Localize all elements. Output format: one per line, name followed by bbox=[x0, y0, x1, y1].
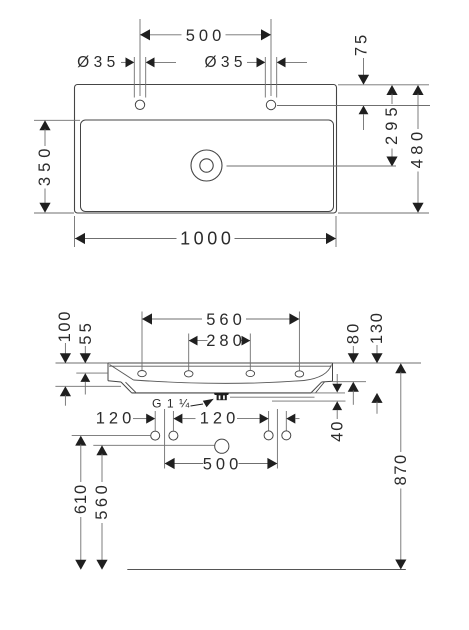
mounting hole leader line bbox=[72, 435, 151, 437]
dim 560 label bbox=[202, 312, 246, 329]
mounting hole line 4 bbox=[285, 411, 287, 431]
dim 1000 extension left bbox=[74, 216, 76, 247]
tap hole right center line bbox=[270, 19, 272, 96]
dim 500 line (tap hole spacing) bbox=[140, 34, 271, 36]
dim 480 arrow up bbox=[412, 85, 423, 95]
front view interior right curve bbox=[304, 365, 332, 381]
svg-text:280: 280 bbox=[206, 332, 246, 350]
dim 120 left arrow a bbox=[146, 414, 155, 424]
deck tap hole 4 bbox=[295, 371, 304, 377]
tap hole right circle bbox=[266, 100, 275, 109]
lower datum line bbox=[272, 400, 346, 402]
dim 120 left leader bbox=[133, 418, 147, 420]
dim 500 label bbox=[182, 28, 226, 44]
drain outer circle bbox=[191, 150, 222, 181]
svg-text:480: 480 bbox=[409, 127, 427, 168]
svg-text:Ø35: Ø35 bbox=[204, 54, 247, 71]
dim 100 arrow down bbox=[60, 353, 71, 363]
dim 280 arrow right bbox=[242, 336, 251, 346]
washbasin top view inner basin outline bbox=[81, 120, 334, 212]
dim 350 arrow up bbox=[39, 120, 50, 130]
dim 100 line upper bbox=[64, 343, 66, 355]
dim Ø35 right arrow a bbox=[257, 57, 266, 67]
dim 80 arrow up bbox=[348, 382, 359, 392]
dim 80 line lower bbox=[352, 390, 354, 405]
front view skirt left slant inner bbox=[126, 382, 136, 392]
front view underside right bbox=[322, 380, 333, 383]
dim 480 line lower bbox=[417, 172, 419, 205]
front view skirt right slant inner bbox=[316, 382, 325, 393]
mounting hole circle 1 bbox=[151, 431, 160, 440]
mounting hole circle 4 bbox=[282, 431, 291, 440]
tap hole left tangent lines bbox=[133, 57, 135, 98]
dim 280 arrow left bbox=[189, 336, 198, 346]
dim 1000 arrow left bbox=[75, 233, 85, 244]
drain center leader line bbox=[227, 165, 397, 167]
mounting hole line 2 bbox=[172, 411, 174, 431]
svg-text:610: 610 bbox=[72, 484, 90, 514]
dim 75 counter arrow up to hole axis bbox=[359, 106, 369, 115]
svg-text:560: 560 bbox=[93, 482, 111, 520]
svg-text:130: 130 bbox=[368, 311, 386, 344]
front view skirt bottom bbox=[132, 392, 312, 394]
washbasin top view outer outline bbox=[75, 85, 337, 214]
dim 560 extension left bbox=[141, 312, 143, 371]
dim 1000 label bbox=[177, 230, 235, 248]
dim 120 right tail bbox=[295, 418, 300, 420]
dim 40 line upper bbox=[336, 374, 338, 384]
dim 1000 line bbox=[75, 238, 336, 240]
dim 130 line lower bbox=[376, 402, 378, 414]
dim 130 line upper bbox=[376, 345, 378, 355]
dim Ø35 left arrow b bbox=[146, 57, 155, 67]
dim 870 arrow up bbox=[395, 363, 406, 373]
dim 120 right arrow b bbox=[286, 414, 295, 424]
dim 610 line upper bbox=[80, 444, 82, 482]
dim 280 extension right bbox=[249, 334, 251, 371]
dim 610 line lower bbox=[80, 517, 82, 561]
mounting hole circle 3 bbox=[264, 431, 273, 440]
svg-text:1000: 1000 bbox=[180, 229, 234, 249]
drain fitting body bbox=[217, 395, 227, 400]
dim 130 arrow down bbox=[371, 353, 382, 363]
dim 1000 arrow right bbox=[326, 233, 336, 244]
dim 55 arrow up bbox=[80, 373, 90, 382]
dim 75 line bbox=[363, 58, 365, 76]
dim 1000 extension right bbox=[335, 216, 337, 247]
front view underside left bbox=[108, 381, 121, 382]
fixing axis line left bbox=[164, 409, 166, 469]
front view left edge bbox=[107, 363, 109, 381]
svg-text:G 1 ¼: G 1 ¼ bbox=[152, 397, 191, 411]
dim 295 line upper bbox=[391, 94, 393, 104]
dim 80 arrow down bbox=[348, 353, 359, 363]
G 1 1/4 arrowhead bbox=[203, 399, 214, 407]
mounting hole line 1 bbox=[154, 411, 156, 431]
svg-text:80: 80 bbox=[344, 322, 362, 345]
skirt bottom extension line bbox=[311, 392, 345, 394]
dim 350 line lower bbox=[44, 189, 46, 205]
drain leader line bbox=[93, 444, 214, 446]
svg-text:500: 500 bbox=[203, 455, 243, 473]
tap hole left circle bbox=[135, 100, 144, 109]
svg-text:120: 120 bbox=[200, 410, 240, 428]
dim 40 arrow down bbox=[332, 384, 342, 393]
dim 610 arrow up bbox=[75, 436, 86, 446]
svg-text:75: 75 bbox=[353, 32, 371, 56]
dim 560v arrow up bbox=[96, 445, 107, 455]
dim Ø35 left arrow a bbox=[126, 57, 135, 67]
svg-text:295: 295 bbox=[383, 102, 401, 145]
dim 100 line lower bbox=[64, 395, 66, 406]
svg-text:350: 350 bbox=[36, 144, 54, 187]
dim 560 line bbox=[142, 318, 299, 320]
drain outlet circle bbox=[215, 439, 229, 453]
front view extension top right bbox=[333, 362, 422, 364]
dim 120 right arrow a bbox=[260, 414, 269, 424]
front view bowl bottom curve bbox=[134, 380, 305, 383]
dim 55 line upper bbox=[84, 346, 86, 355]
deck tap hole 3 bbox=[246, 370, 255, 376]
deck tap hole 1 bbox=[138, 371, 147, 377]
floor line bbox=[127, 569, 406, 571]
dim 55 line lower bbox=[84, 382, 86, 395]
dim 560v arrow down bbox=[96, 560, 107, 570]
front view deck top edge bbox=[108, 362, 333, 364]
dim Ø35 right leader bbox=[247, 61, 257, 63]
tap hole left center line bbox=[139, 19, 141, 96]
dim 350 line upper bbox=[44, 129, 46, 146]
dim 80 line upper bbox=[352, 346, 354, 355]
dim 120 right leader bbox=[237, 418, 260, 420]
dim 870 arrow down bbox=[395, 560, 406, 570]
dim 560v line upper bbox=[101, 454, 103, 482]
svg-text:870: 870 bbox=[392, 453, 410, 485]
front view interior left diagonal bbox=[110, 365, 134, 381]
dim 100 extension line bbox=[55, 385, 121, 387]
front view extension top left bbox=[56, 362, 109, 364]
extension line tap hole center right bbox=[277, 105, 430, 107]
mounting hole line 3 bbox=[268, 411, 270, 431]
dim 350 extension top bbox=[34, 119, 80, 121]
dim 560 extension right bbox=[298, 312, 300, 371]
fitting mid extension line bbox=[230, 396, 315, 398]
dim 350 extension bottom bbox=[34, 212, 74, 214]
dim 40 line lower bbox=[336, 410, 338, 419]
dim 480 line upper bbox=[417, 94, 419, 129]
dim 295 arrow down bbox=[386, 157, 397, 167]
dim 280 line bbox=[189, 340, 251, 342]
front view skirt left slant outer bbox=[121, 382, 132, 393]
dim 500 bottom arrow left bbox=[165, 458, 175, 469]
dim 295 arrow up bbox=[386, 85, 397, 95]
dim 280 label bbox=[208, 333, 241, 349]
svg-text:Ø35: Ø35 bbox=[77, 54, 120, 71]
dim 480 arrow down bbox=[412, 203, 423, 213]
deck tap hole 2 bbox=[184, 371, 193, 377]
dim 55 extension line bbox=[76, 372, 108, 374]
svg-text:120: 120 bbox=[96, 410, 136, 428]
dim 350 arrow down bbox=[39, 203, 50, 213]
dim Ø35 left tail bbox=[155, 61, 177, 63]
dim 55 arrow down bbox=[80, 353, 91, 363]
dim 560 arrow right bbox=[289, 313, 299, 324]
dim 560v line lower bbox=[101, 523, 103, 561]
drain fitting flange bbox=[214, 393, 229, 395]
underside right extension line bbox=[333, 381, 367, 383]
G 1 1/4 leader bbox=[191, 404, 204, 406]
dim 40 arrow up bbox=[332, 401, 342, 410]
dim 130 arrow up bbox=[371, 393, 382, 403]
dim 560 arrow left bbox=[142, 313, 152, 324]
mounting hole circle 2 bbox=[169, 431, 178, 440]
tap hole right tangent lines bbox=[264, 57, 266, 98]
svg-text:55: 55 bbox=[77, 320, 95, 345]
dim 500 bottom arrow right bbox=[267, 458, 277, 469]
dim 120 left arrow b bbox=[173, 414, 182, 424]
dim 870 line lower bbox=[400, 489, 402, 562]
svg-text:500: 500 bbox=[186, 27, 226, 45]
dim 500 arrow right bbox=[261, 29, 271, 40]
svg-text:560: 560 bbox=[206, 311, 246, 329]
drain inner circle bbox=[200, 159, 213, 172]
dim 120 left tail bbox=[182, 418, 196, 420]
dim 280 extension left bbox=[188, 334, 190, 371]
dim 100 arrow up bbox=[60, 386, 71, 396]
svg-text:100: 100 bbox=[56, 310, 74, 342]
fixing axis line right bbox=[276, 409, 278, 469]
dim Ø35 left leader bbox=[121, 61, 126, 63]
dim Ø35 right tail bbox=[286, 61, 308, 63]
front view right edge bbox=[332, 363, 334, 381]
dim 500 arrow left bbox=[140, 29, 150, 40]
dim 500 bottom line right bbox=[239, 463, 278, 465]
svg-text:40: 40 bbox=[328, 420, 346, 442]
dim 295 line lower bbox=[391, 149, 393, 158]
front view skirt right slant outer bbox=[311, 382, 322, 393]
dim 610 arrow down bbox=[75, 560, 86, 570]
extension line basin bottom edge right bbox=[338, 212, 429, 214]
dim 75 arrow down to rim bbox=[358, 75, 369, 85]
dim 500 bottom line left bbox=[165, 463, 203, 465]
dim 870 line upper bbox=[400, 372, 402, 452]
front view deck front edge line bbox=[109, 365, 332, 367]
extension line basin top edge right bbox=[338, 84, 429, 86]
dim Ø35 right arrow b bbox=[277, 57, 286, 67]
